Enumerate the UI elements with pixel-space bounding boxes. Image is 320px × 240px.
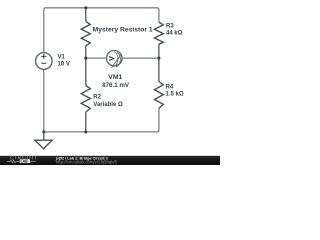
wire: bridge right arm (VM1 right terminal to node C) <box>122 57 159 59</box>
svg-text:LAB: LAB <box>21 160 29 164</box>
svg-text:R2: R2 <box>93 94 101 100</box>
svg-text:VM1: VM1 <box>108 75 123 81</box>
svg-text:R4: R4 <box>166 85 174 91</box>
svg-text:876.1 mV: 876.1 mV <box>102 83 129 89</box>
svg-text:10 V: 10 V <box>58 62 70 68</box>
node E: ground junction <box>42 130 45 133</box>
wire: bottom rail (ground node across to R4 bottom) <box>44 108 159 131</box>
resistor R3 <box>154 22 182 58</box>
resistor R4 <box>154 58 183 108</box>
footer: CircuitLab logo <box>7 156 38 164</box>
svg-text:Mystery Resistor 1: Mystery Resistor 1 <box>93 28 154 34</box>
wire: left rail lower (V1- down to ground node) <box>43 69 45 132</box>
svg-text:Variable Ω: Variable Ω <box>93 102 123 108</box>
node B: left bridge midpoint <box>84 57 87 60</box>
wire: bridge left arm (node B to VM1 left terminal) <box>86 57 107 59</box>
ground <box>35 132 52 149</box>
footer bar <box>0 156 220 165</box>
wire: top rail (V1+ up, across top, down to R3 top) <box>44 8 159 53</box>
voltmeter VM1 <box>102 51 129 89</box>
svg-text:R3: R3 <box>166 24 174 30</box>
resistor Mystery Resistor 1 <box>81 8 153 58</box>
node A: top junction (R1 top / top rail) <box>84 6 87 9</box>
svg-text:V1: V1 <box>58 55 66 61</box>
voltage source V1 <box>36 53 70 70</box>
svg-text:1.5 kΩ: 1.5 kΩ <box>166 92 184 98</box>
node C: right bridge midpoint <box>157 57 160 60</box>
svg-text:http://circuitlab.com/c/29j5hq: http://circuitlab.com/c/29j5hqk/5 <box>56 160 118 165</box>
node D: R2 bottom junction <box>84 130 87 133</box>
svg-text:44 kΩ: 44 kΩ <box>166 31 183 37</box>
resistor R2 <box>81 58 123 132</box>
